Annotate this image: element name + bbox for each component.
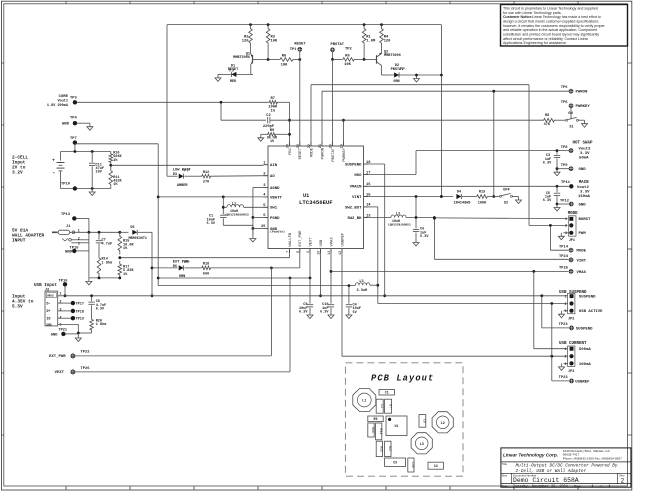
svg-text:3: 3 — [78, 242, 80, 246]
svg-text:Title: Title — [502, 462, 508, 466]
wire J1 tip — [78, 231, 120, 233]
wire VINT rail corner down — [440, 25, 442, 197]
svg-text:HOT SWAP: HOT SWAP — [573, 142, 593, 146]
svg-text:L2: L2 — [396, 213, 400, 217]
svg-text:MAIN: MAIN — [579, 181, 589, 185]
svg-text:GND: GND — [62, 123, 70, 127]
svg-text:JP1: JP1 — [569, 239, 575, 243]
svg-text:WALLFB: WALLFB — [289, 232, 293, 246]
svg-text:Tuesday, November 30, 2004: Tuesday, November 30, 2004 — [513, 484, 568, 489]
svg-text:R7: R7 — [388, 404, 392, 408]
wire WALLFB tap — [118, 256, 121, 259]
svg-text:Vout3: Vout3 — [579, 147, 591, 151]
svg-text:R10: R10 — [371, 427, 375, 433]
svg-text:TP16: TP16 — [59, 279, 69, 283]
svg-text:PWM: PWM — [579, 232, 587, 236]
wire VINT rail drop to low-batt LED — [166, 25, 168, 177]
wire Q2 collector — [381, 66, 383, 76]
svg-text:GND: GND — [65, 250, 73, 254]
svg-text:LOW BATT: LOW BATT — [173, 169, 192, 173]
svg-text:D-: D- — [47, 301, 51, 305]
svg-text:1 Ohm: 1 Ohm — [96, 322, 107, 327]
wire SUSPEND — [364, 163, 385, 165]
svg-text:VBATT: VBATT — [270, 196, 282, 200]
svg-text:TP8: TP8 — [561, 146, 568, 150]
wire GND paddle — [253, 227, 268, 229]
wire SUSPEND to TP23 — [541, 296, 543, 328]
svg-text:PBSTAT: PBSTAT — [331, 43, 345, 47]
svg-text:VBUS: VBUS — [47, 294, 54, 297]
svg-text:TP19: TP19 — [76, 318, 84, 322]
svg-text:SUSPEND: SUSPEND — [576, 327, 593, 331]
wire PGND — [253, 216, 268, 218]
svg-text:R12: R12 — [203, 171, 209, 175]
wire VEXT row — [158, 277, 310, 279]
svg-text:Applications Engineering for a: Applications Engineering for assistance. — [503, 41, 567, 45]
svg-text:TP18: TP18 — [76, 310, 84, 314]
svg-text:D+: D+ — [47, 309, 51, 313]
svg-text:6.3V: 6.3V — [543, 162, 552, 166]
svg-text:270: 270 — [203, 181, 209, 185]
svg-text:USB ACTIVE: USB ACTIVE — [579, 310, 603, 314]
svg-text:D5: D5 — [130, 226, 134, 230]
wire VBATT — [158, 196, 223, 198]
svg-text:500mA: 500mA — [579, 348, 591, 352]
ground S1 — [579, 119, 585, 121]
svg-text:2: 2 — [565, 355, 567, 359]
border zone ticks — [65, 1, 67, 4]
svg-text:VMAX: VMAX — [577, 271, 587, 275]
svg-text:Vout2: Vout2 — [577, 186, 589, 190]
svg-text:USBREF: USBREF — [575, 380, 590, 384]
svg-text:TP11: TP11 — [561, 181, 571, 185]
wire JP1 pin1 — [433, 217, 436, 220]
wire battery top rail — [61, 151, 111, 153]
ground JP1 — [560, 233, 562, 237]
svg-text:100mA: 100mA — [579, 363, 591, 367]
svg-text:TP23: TP23 — [559, 323, 569, 327]
capacitor C6 — [415, 218, 417, 229]
svg-text:BURST: BURST — [579, 218, 591, 222]
svg-text:1: 1 — [565, 295, 567, 299]
resistor R8 — [542, 118, 556, 122]
svg-text:MODE: MODE — [577, 250, 587, 254]
svg-text:R9: R9 — [374, 417, 378, 421]
wire JP2 pin2 — [378, 303, 568, 305]
svg-text:C2: C2 — [380, 404, 384, 408]
svg-text:Sheet: Sheet — [574, 484, 582, 488]
svg-text:L1: L1 — [232, 202, 236, 206]
svg-text:3.3V: 3.3V — [580, 152, 590, 156]
svg-text:AIN: AIN — [270, 164, 278, 168]
svg-text:MMBT3906: MMBT3906 — [384, 54, 401, 58]
svg-text:RESET: RESET — [299, 147, 303, 159]
svg-text:220pF: 220pF — [263, 125, 275, 129]
svg-text:6.3V: 6.3V — [320, 311, 329, 315]
ground JP3 — [561, 363, 563, 367]
svg-text:TP14: TP14 — [559, 246, 569, 250]
wire AIN pin stub — [264, 164, 269, 166]
svg-text:1: 1 — [60, 292, 62, 296]
svg-text:AMBER: AMBER — [177, 184, 188, 188]
svg-text:6.3V: 6.3V — [207, 222, 216, 226]
svg-text:TP10: TP10 — [61, 182, 71, 186]
svg-text:Linear Technology Corp.: Linear Technology Corp. — [503, 453, 558, 458]
wire AGND — [253, 186, 264, 188]
svg-text:GND: GND — [46, 322, 52, 326]
svg-text:4: 4 — [60, 315, 62, 319]
wire J1 gnd vertical — [88, 232, 90, 278]
svg-text:SUSPEND: SUSPEND — [345, 163, 362, 167]
wire VEXT pin — [309, 249, 311, 279]
svg-text:S1: S1 — [569, 126, 573, 130]
capacitor C10 — [328, 304, 334, 306]
svg-text:R13: R13 — [479, 190, 485, 194]
svg-text:3.3V: 3.3V — [580, 191, 590, 195]
svg-text:GND: GND — [579, 203, 587, 207]
capacitor C5 — [556, 186, 558, 192]
wire PWRON — [321, 91, 323, 146]
svg-text:VEXT: VEXT — [309, 237, 313, 247]
svg-text:+: + — [52, 159, 55, 164]
svg-text:LQH32CN100K53: LQH32CN100K53 — [388, 223, 411, 226]
svg-text:C9: C9 — [393, 460, 397, 464]
svg-text:VMAX: VMAX — [330, 237, 334, 247]
diode D2 PBSTAT LED — [389, 74, 441, 76]
svg-text:J2: J2 — [45, 288, 49, 292]
svg-text:100K: 100K — [478, 202, 487, 206]
svg-text:R11: R11 — [379, 429, 383, 435]
wire wall rail — [138, 231, 152, 233]
svg-text:TP24: TP24 — [559, 255, 569, 259]
inductor L2 — [391, 215, 406, 217]
ground C6 — [415, 239, 417, 243]
inductor L1 — [227, 205, 244, 208]
wire SW2 node — [406, 217, 434, 219]
wire HSO — [364, 174, 417, 176]
ground wall — [89, 277, 120, 279]
transistor Q1 — [250, 47, 252, 54]
svg-text:PWRON: PWRON — [576, 91, 588, 95]
svg-text:EXT_PWR: EXT_PWR — [49, 355, 66, 359]
svg-text:TP17: TP17 — [76, 303, 84, 307]
svg-text:R6: R6 — [345, 55, 350, 59]
svg-text:D3: D3 — [173, 173, 177, 177]
svg-text:3.2V: 3.2V — [12, 170, 23, 176]
svg-text:R9: R9 — [270, 129, 275, 133]
svg-text:FB1: FB1 — [289, 147, 293, 155]
svg-text:SW2_BST: SW2_BST — [345, 206, 362, 210]
svg-text:10K: 10K — [281, 63, 288, 67]
svg-text:3.3uH: 3.3uH — [357, 289, 368, 293]
svg-text:USB SUSPEND: USB SUSPEND — [559, 291, 587, 295]
svg-text:EXT_PWR: EXT_PWR — [299, 230, 303, 247]
battery BT1 — [60, 152, 62, 161]
svg-text:AGND: AGND — [270, 187, 280, 191]
capacitor C3 — [556, 151, 558, 155]
svg-text:ON: ON — [568, 112, 572, 116]
resistor R11 — [109, 167, 113, 189]
svg-text:S2: S2 — [504, 201, 508, 205]
svg-text:2: 2 — [621, 477, 625, 484]
wire USB pin — [320, 249, 322, 296]
ground J2 — [77, 335, 79, 339]
wire TP14 — [549, 225, 551, 250]
svg-text:USBREF: USBREF — [341, 232, 345, 246]
svg-text:5.5V: 5.5V — [12, 304, 23, 310]
svg-text:TP4: TP4 — [70, 116, 77, 120]
svg-text:Date: Date — [502, 484, 508, 488]
svg-text:L1: L1 — [362, 400, 366, 404]
svg-text:TP26: TP26 — [81, 367, 91, 371]
svg-text:U1: U1 — [395, 424, 399, 428]
diode D6 EXT PWR LED — [152, 267, 178, 269]
inductor L3 — [355, 283, 370, 285]
wire TP7 to VBATT — [75, 143, 158, 145]
wire MODE — [310, 85, 312, 146]
wire USB rail — [158, 285, 355, 287]
svg-text:1: 1 — [609, 484, 611, 488]
svg-text:120: 120 — [384, 40, 391, 44]
resistor R14 — [97, 254, 101, 278]
wire C2 branch — [220, 102, 222, 120]
diode D1 RESET LED — [218, 73, 253, 75]
wire VMAX pin — [330, 249, 332, 304]
svg-text:PWRKEY: PWRKEY — [576, 105, 591, 109]
svg-text:PGND: PGND — [270, 217, 280, 221]
svg-text:VINT: VINT — [577, 259, 587, 263]
svg-text:PWRON: PWRON — [321, 148, 325, 159]
svg-text:USB CURRENT: USB CURRENT — [559, 342, 587, 346]
resistor R12 — [185, 175, 201, 177]
svg-text:2: 2 — [565, 224, 567, 228]
svg-text:GND: GND — [51, 333, 58, 337]
svg-text:50mA: 50mA — [579, 156, 589, 160]
capacitor C7 — [98, 232, 100, 240]
svg-text:TP1: TP1 — [290, 48, 297, 52]
ground for D1 — [217, 74, 219, 78]
resistor R18 — [185, 267, 201, 269]
resistor R13 — [475, 195, 489, 199]
wire PWRON to VINT switch — [493, 91, 495, 196]
transistor Q2 — [364, 58, 376, 60]
ground C5 — [556, 204, 558, 208]
svg-text:LTC3456EUF: LTC3456EUF — [299, 199, 333, 206]
svg-text:RESET: RESET — [228, 68, 239, 72]
svg-text:USB: USB — [320, 239, 324, 247]
svg-text:TP22: TP22 — [81, 351, 91, 355]
wire TP24 branch — [433, 218, 435, 259]
svg-text:1: 1 — [78, 228, 80, 232]
svg-text:1 Ohm: 1 Ohm — [102, 260, 113, 265]
svg-text:4.7uF: 4.7uF — [102, 242, 113, 246]
svg-text:CORE: CORE — [59, 95, 69, 99]
svg-text:10K: 10K — [344, 63, 351, 67]
capacitor C8 — [91, 296, 93, 301]
resistor R20 — [90, 316, 94, 333]
svg-text:SUSPEND: SUSPEND — [579, 296, 596, 300]
wire PWRKEY pin19 — [343, 120, 345, 146]
svg-text:R17: R17 — [388, 446, 392, 452]
wire JP3 pin1 feed — [533, 271, 535, 348]
wire SW2_BST — [364, 206, 378, 208]
capacitor C2 — [267, 117, 269, 123]
svg-text:C2: C2 — [266, 114, 271, 118]
test point TP19 — [58, 317, 71, 319]
capacitor C1 — [220, 214, 226, 216]
resistor R10 — [109, 152, 113, 165]
svg-text:GRN: GRN — [393, 80, 399, 84]
svg-text:VINT: VINT — [352, 196, 362, 200]
svg-text:560: 560 — [203, 272, 209, 276]
PCB layout diagram — [345, 363, 463, 476]
svg-text:TP3: TP3 — [70, 97, 77, 101]
svg-text:TP9: TP9 — [561, 164, 568, 168]
svg-text:SW1: SW1 — [270, 207, 278, 211]
capacitor C9 — [309, 278, 311, 304]
svg-text:PWRKEY: PWRKEY — [343, 147, 347, 161]
wire WALLFB — [289, 249, 291, 258]
svg-text:R7: R7 — [271, 97, 275, 101]
svg-text:VEXT: VEXT — [55, 371, 65, 375]
svg-text:6.3V: 6.3V — [420, 235, 429, 239]
svg-text:C4: C4 — [434, 464, 438, 468]
svg-text:GND: GND — [579, 168, 587, 172]
wire J2 gnd — [58, 323, 79, 325]
wire FB1 Vout1 — [77, 101, 268, 103]
switch S2 OFF — [500, 195, 502, 197]
wire VINT top rail — [167, 24, 441, 26]
wire VINT to C6 — [415, 197, 417, 218]
resistor R1 — [362, 25, 366, 47]
svg-text:L3: L3 — [420, 443, 424, 447]
svg-text:RESET: RESET — [294, 43, 306, 47]
svg-text:6.3V: 6.3V — [96, 308, 105, 312]
svg-text:GRN: GRN — [179, 275, 185, 279]
svg-text:L2: L2 — [441, 422, 445, 426]
svg-text:LQH32CN100K53: LQH32CN100K53 — [225, 213, 249, 217]
svg-text:R15: R15 — [380, 446, 384, 452]
svg-text:10uH: 10uH — [392, 219, 400, 223]
svg-text:D6: D6 — [173, 265, 177, 269]
wire battery bottom rail — [61, 188, 111, 190]
svg-text:of: of — [600, 484, 603, 488]
svg-text:TP13: TP13 — [61, 213, 71, 217]
svg-text:R18: R18 — [203, 263, 209, 267]
svg-text:(Paddle): (Paddle) — [270, 230, 285, 234]
resistor R5 — [268, 59, 278, 61]
ground battery — [91, 189, 93, 193]
diode D5 — [132, 230, 137, 235]
svg-text:TP7: TP7 — [70, 137, 77, 141]
wire VMAX row — [331, 270, 568, 272]
ground IC — [252, 235, 254, 239]
ground C10 — [330, 312, 332, 316]
wire VINT — [364, 196, 454, 198]
svg-text:OFF: OFF — [503, 188, 510, 192]
svg-text:SW2_BK: SW2_BK — [347, 217, 362, 221]
title block — [501, 448, 631, 487]
svg-text:-: - — [52, 169, 55, 176]
svg-text:TP23: TP23 — [559, 376, 569, 380]
wire USBREF to TP23 — [551, 304, 553, 381]
svg-text:EXT PWR: EXT PWR — [173, 260, 189, 264]
wire Q1 collector — [250, 65, 252, 75]
svg-text:47K: 47K — [544, 123, 551, 127]
svg-text:D4: D4 — [457, 190, 461, 194]
resistor R6 — [333, 58, 342, 60]
svg-text:MODE: MODE — [568, 212, 578, 216]
wire VBATT to L1 — [222, 197, 224, 214]
wire PWRKEY row — [290, 119, 543, 121]
svg-text:RED: RED — [230, 80, 236, 84]
capacitor C11 — [91, 152, 93, 163]
svg-text:10K: 10K — [271, 40, 278, 44]
ground C9 — [309, 312, 311, 316]
svg-text:TP2: TP2 — [345, 47, 352, 51]
wire AIN — [109, 164, 112, 167]
svg-text:MMBT3906: MMBT3906 — [233, 56, 250, 60]
svg-text:ID: ID — [47, 316, 51, 320]
svg-text:6.3V: 6.3V — [299, 311, 308, 315]
svg-text:PBSTAT: PBSTAT — [332, 147, 336, 161]
svg-text:C6: C6 — [423, 419, 427, 423]
svg-text:1.0M: 1.0M — [366, 40, 376, 44]
wire EXT_PWR pin — [299, 249, 301, 268]
svg-text:Size: Size — [502, 474, 508, 478]
resistor R15 — [118, 232, 122, 254]
svg-text:1: 1 — [565, 217, 567, 221]
capacitor C4 — [348, 286, 350, 304]
svg-text:MBR0530T1: MBR0530T1 — [129, 237, 147, 241]
svg-text:R5: R5 — [282, 55, 287, 59]
test point TP17 — [58, 302, 71, 304]
wire VBUS — [58, 295, 568, 297]
svg-text:1.8V 200mA: 1.8V 200mA — [47, 104, 69, 108]
svg-text:Multi-Output DC/DC Converter P: Multi-Output DC/DC Converter Powered By — [516, 463, 618, 468]
svg-text:1: 1 — [592, 484, 594, 488]
svg-text:6.3V: 6.3V — [543, 199, 552, 203]
svg-text:TP25: TP25 — [559, 266, 569, 270]
svg-text:Phone: (408)432-1900 Fax: (408: Phone: (408)432-1900 Fax: (408)434-0507 — [563, 457, 622, 461]
svg-text:C1: C1 — [385, 390, 389, 394]
svg-text:HSO: HSO — [354, 174, 362, 178]
resistor R2 — [249, 25, 253, 47]
svg-text:10V: 10V — [96, 171, 103, 175]
notice text box — [501, 5, 628, 47]
svg-text:J1: J1 — [66, 225, 71, 229]
diode D4 — [456, 194, 461, 199]
svg-text:L3: L3 — [359, 280, 363, 284]
diode D3 LOW BATT LED — [167, 175, 178, 177]
resistor R17 — [118, 261, 122, 278]
wire USBREF pin — [341, 249, 343, 357]
resistor R7 — [268, 101, 279, 105]
ground for D2 — [416, 75, 418, 79]
svg-text:JP3: JP3 — [568, 370, 574, 374]
svg-text:JP2: JP2 — [568, 317, 574, 321]
resistor R9 — [260, 134, 262, 138]
svg-text:1N4148WS: 1N4148WS — [454, 202, 471, 206]
wire VMAIN — [364, 185, 569, 187]
svg-text:AO: AO — [270, 175, 275, 179]
svg-text:PBSTAT: PBSTAT — [391, 68, 404, 72]
svg-text:150mA: 150mA — [578, 195, 590, 199]
svg-text:Demo Circuit 658A: Demo Circuit 658A — [513, 477, 579, 484]
ground JP2 — [561, 311, 563, 315]
svg-text:PCB Layout: PCB Layout — [371, 374, 434, 384]
svg-text:INPUT: INPUT — [12, 238, 26, 244]
